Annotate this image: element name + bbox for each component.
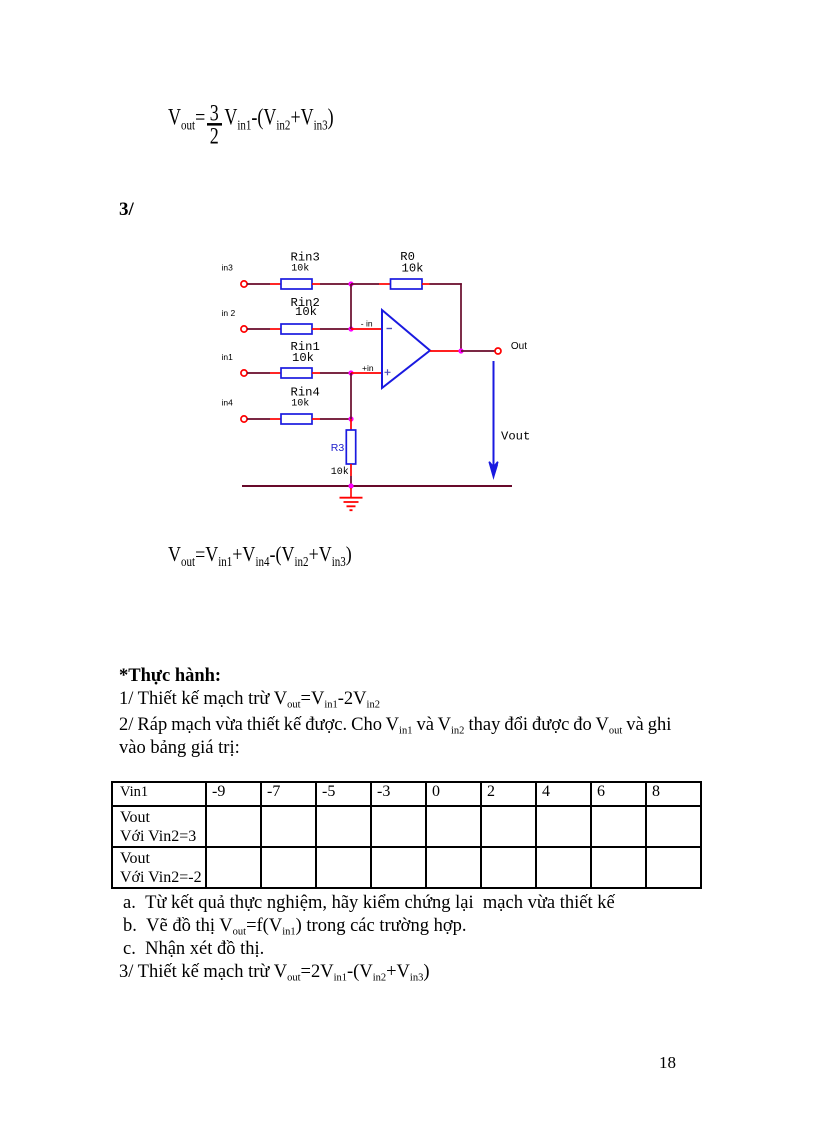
pin R3 top [350, 419, 352, 430]
heading *Thuc hanh [119, 666, 221, 687]
junction node GND on rail [348, 483, 353, 488]
resistor Rin1 [281, 368, 312, 378]
wire in4 terminal to Rin4 [247, 418, 270, 420]
node in3 terminal [241, 281, 247, 287]
wire in2 terminal to Rin2 [247, 328, 270, 330]
resistor Rin3 [281, 279, 312, 289]
formula Vout=3/2*Vin1-(Vin2+Vin3) [168, 104, 334, 131]
junction node A (inverting net, row in3) [348, 281, 353, 286]
junction node D (row in4) [348, 416, 353, 421]
heading 3/ [119, 199, 134, 221]
svg-text:Rin3: Rin3 [291, 250, 320, 264]
pin op-amp output [430, 350, 461, 352]
op-amp U1 [382, 310, 430, 388]
wire Rin3 to node A [320, 283, 351, 285]
junction node C (non-inverting input) [348, 370, 353, 375]
wire node A to R0 [351, 283, 379, 285]
svg-text:10k: 10k [291, 263, 309, 275]
wire node Out to Out terminal [461, 350, 495, 352]
Vout arrow head [489, 462, 498, 477]
svg-text:in1: in1 [222, 352, 234, 362]
wire in3 terminal to Rin3 [247, 283, 270, 285]
pin Rin3 right [312, 283, 320, 285]
pin Rin4 left [270, 418, 281, 420]
node in2 terminal [241, 326, 247, 332]
pin op-amp inverting input [351, 328, 382, 330]
pin Rin1 left [270, 372, 281, 374]
pin R0 right [422, 283, 430, 285]
op-amp minus mark [387, 328, 393, 330]
svg-text:in3: in3 [222, 262, 234, 272]
wire Rin1 to node C [320, 372, 351, 374]
svg-text:10k: 10k [292, 351, 314, 365]
junction node Out [458, 348, 463, 353]
junction node B (inverting input) [348, 326, 353, 331]
wire Rin4 to node D [320, 418, 351, 420]
ground symbol bars [340, 498, 363, 511]
svg-text:+in: +in [362, 363, 374, 373]
resistor R0 [391, 279, 423, 289]
wire in1 terminal to Rin1 [247, 372, 270, 374]
svg-text:10k: 10k [331, 466, 349, 478]
svg-text:10k: 10k [402, 261, 424, 275]
formula Vout=Vin1+Vin4-(Vin2+Vin3) [168, 542, 352, 567]
page number [659, 1053, 676, 1073]
svg-text:Vout: Vout [501, 430, 530, 444]
wire Rin2 to node B [320, 328, 351, 330]
svg-text:in 2: in 2 [222, 308, 236, 318]
pin Rin3 left [270, 283, 281, 285]
wire R3 to ground rail [350, 476, 352, 486]
resistor Rin2 [281, 324, 312, 334]
resistor R3 [346, 430, 355, 464]
pin Rin2 right [312, 328, 320, 330]
resistor Rin4 [281, 414, 312, 424]
svg-text:in4: in4 [222, 398, 234, 408]
wire Vout arrow shaft [493, 361, 495, 468]
pin R0 left [379, 283, 391, 285]
svg-text:10k: 10k [295, 305, 317, 319]
svg-text:R3: R3 [331, 442, 345, 454]
op-amp plus mark [385, 369, 391, 375]
list a b c [123, 893, 615, 914]
wire node A to node B vertical [350, 284, 352, 329]
pin Rin1 right [312, 372, 320, 374]
wire feedback vertical [460, 283, 462, 351]
data table [111, 781, 702, 889]
pin Rin4 right [312, 418, 320, 420]
svg-text:10k: 10k [291, 397, 309, 409]
node in1 terminal [241, 370, 247, 376]
node in4 terminal [241, 416, 247, 422]
node Out terminal [495, 348, 501, 354]
svg-text:Out: Out [511, 341, 527, 352]
pin R3 bottom [350, 464, 352, 476]
pin op-amp non-inverting input [351, 372, 382, 374]
wire node C to node D vertical [350, 373, 352, 419]
svg-text:- in: - in [361, 319, 373, 329]
pin Rin2 left [270, 328, 281, 330]
wire ground rail [242, 485, 512, 487]
ground symbol stub [350, 488, 352, 497]
wire R0 to feedback corner [430, 283, 462, 285]
